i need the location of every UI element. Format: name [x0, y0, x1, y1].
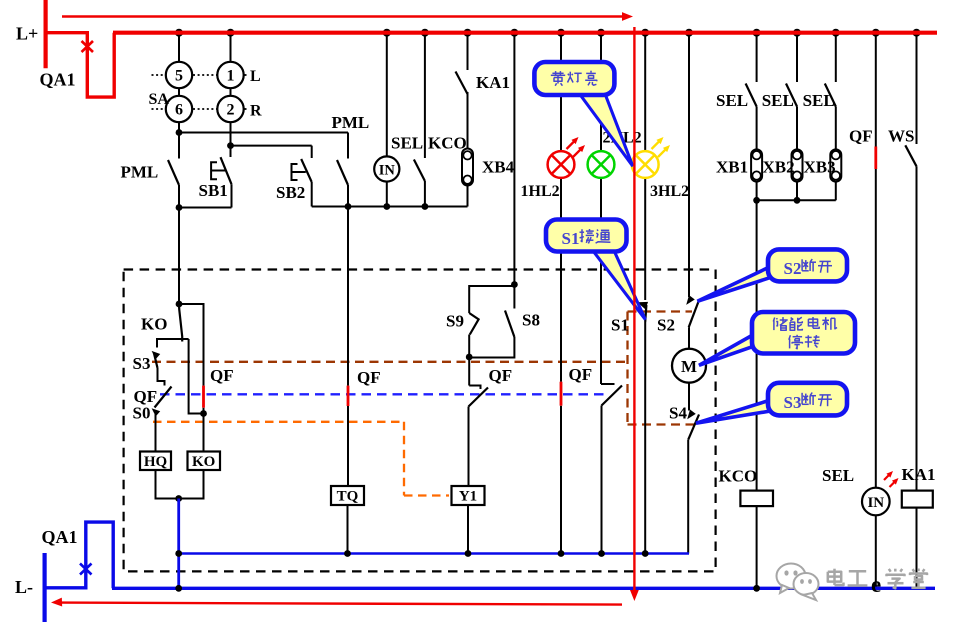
XB3 label — [804, 158, 836, 177]
wire SB2 bottom — [311, 182, 313, 207]
dashed enclosure box (control cabinet boundary) — [124, 270, 716, 572]
wire bus to lamp 2HL2 — [600, 33, 602, 152]
wire PML1 node into box — [178, 208, 180, 305]
wire right branch over to QF — [179, 304, 204, 386]
contact SEL1 blade — [746, 84, 757, 107]
2HL2 label — [603, 130, 642, 147]
wire XB tie to KCO coil — [756, 200, 758, 490]
contact S8 blade — [505, 311, 514, 338]
svg-text:2: 2 — [227, 102, 235, 119]
brown dashed mechanism box bottom edge — [628, 423, 697, 425]
QF closed segment (TQ branch) — [347, 386, 350, 406]
wire node to KO coil — [203, 414, 205, 452]
wire horizontal row2 to SB2 — [231, 145, 312, 147]
svg-text:S0: S0 — [133, 404, 151, 423]
contact SB1 blade — [221, 157, 232, 184]
wire XB3 down — [835, 182, 837, 201]
QA1 breaker cross mark top — [82, 41, 94, 52]
3HL2 label — [650, 183, 689, 200]
svg-text:IN: IN — [867, 495, 884, 511]
wire HQ bottom merge — [156, 470, 179, 499]
svg-text:SEL: SEL — [822, 466, 854, 485]
wire XB4 to tie row — [467, 186, 469, 207]
QF closed segment (right branch) — [874, 147, 877, 170]
svg-text:QF: QF — [569, 365, 593, 384]
KA1 label (contact) — [476, 73, 510, 92]
L- label — [15, 577, 33, 597]
wire KA1 coil to blue bus — [916, 508, 918, 589]
svg-text:XB4: XB4 — [482, 158, 515, 177]
wire SA 1 to 2 — [230, 88, 232, 96]
wire SEL1 to XB1 — [756, 107, 758, 150]
node at 179,207.5 — [176, 204, 183, 211]
node at 347.5,553.5 — [344, 550, 351, 557]
contact QF open blade (2HL2 branch) — [602, 386, 623, 406]
svg-text:HQ: HQ — [144, 454, 168, 470]
node at 756.6,200.3 — [753, 197, 760, 204]
wire IN lower to blue bus — [875, 515, 877, 588]
wire KCO coil to blue bus — [756, 506, 758, 588]
orange dashed S0 linkage line horizontal — [153, 421, 404, 423]
node at 179,304 — [176, 301, 183, 308]
wire 1HL2 below QF — [560, 406, 562, 554]
wire S8 top — [513, 286, 515, 309]
red light-emission arrows 1HL2 — [567, 137, 586, 157]
svg-text:XB2: XB2 — [763, 158, 795, 177]
QA1 label bottom — [42, 527, 78, 547]
svg-text:1HL2: 1HL2 — [521, 183, 560, 200]
SEL label (IN instrument) — [391, 134, 423, 153]
S3 label — [133, 354, 151, 373]
connector XB2 — [792, 149, 803, 181]
SA contact circle 2 — [217, 96, 243, 122]
coil HQ box — [140, 452, 171, 471]
svg-text:XB1: XB1 — [716, 158, 748, 177]
wire row2 to SB2 — [311, 146, 313, 158]
S9 label — [446, 312, 464, 331]
svg-text:L+: L+ — [16, 24, 38, 44]
brown dashed mechanism box left edge — [626, 312, 628, 425]
svg-text:QA1: QA1 — [40, 70, 76, 90]
QF closed segment (KO branch) — [202, 386, 205, 408]
svg-text:KCO: KCO — [719, 467, 758, 486]
wire SEL2 to XB2 — [796, 107, 798, 150]
svg-text:SB1: SB1 — [199, 181, 228, 200]
indicator lamp 2HL2 (green) — [588, 151, 615, 178]
node at 601.5,553.5 — [598, 550, 605, 557]
XB2 label — [763, 158, 795, 177]
wire lamp 2HL2 down — [600, 178, 602, 384]
red arrowhead vertical path — [630, 590, 639, 601]
contact WS blade — [905, 145, 916, 166]
callout balloon: S2 open (S2 duan kai) — [697, 249, 847, 301]
svg-text:S1: S1 — [562, 229, 580, 248]
SEL label 2 — [762, 91, 794, 110]
wire 2HL2 below QF — [601, 406, 603, 554]
node at 468,553.5 — [465, 550, 472, 557]
node at 645.2,553.5 — [642, 550, 649, 557]
R terminal label — [250, 103, 262, 120]
contact KA1 blade — [456, 72, 468, 95]
wire horizontal row1 to PML2 — [179, 132, 348, 134]
wire bus to SEL3 — [835, 33, 837, 82]
wire bus to SA contact 1 — [230, 33, 232, 62]
wire SEL3 to XB3 — [835, 107, 837, 150]
blue dashed QF auxiliary-contact linkage line — [160, 393, 608, 395]
wire row1 corner to PML2 — [347, 133, 349, 159]
wire S2 to motor M — [688, 327, 690, 348]
svg-text:L-: L- — [15, 577, 33, 597]
node at 178.7,498.5 — [175, 495, 182, 502]
wire TQ below QF — [347, 406, 349, 486]
red arrowhead top line — [622, 12, 633, 21]
wire bus to S2 — [688, 33, 690, 297]
wire QF red branch lower — [203, 408, 205, 414]
wire bus to KA1 contact — [467, 33, 469, 70]
wire Y1 to blue tie — [467, 505, 469, 554]
svg-text:3HL2: 3HL2 — [650, 183, 689, 200]
callout balloon: yellow lamp on (huang deng liang) — [534, 62, 632, 166]
svg-text:SEL: SEL — [716, 91, 748, 110]
svg-text:S1: S1 — [611, 316, 629, 335]
instrument IN circle lower — [862, 488, 890, 516]
PML label (left contact) — [121, 163, 159, 182]
node at 178.7,588.3 — [175, 585, 182, 592]
contact QF open blade (Y1 branch) — [469, 388, 489, 407]
wire lamp 1HL2 down — [560, 178, 562, 382]
PML label (second contact) — [332, 113, 370, 132]
SB2 label — [276, 183, 305, 202]
svg-text:S9: S9 — [446, 312, 464, 331]
contact S3 arrow — [152, 351, 161, 359]
SEL label 1 — [716, 91, 748, 110]
QF label (KO branch) — [210, 366, 234, 385]
wire SA6 down to node — [178, 122, 180, 132]
contact S4 opening arrow — [687, 410, 696, 420]
svg-text:S4: S4 — [669, 404, 687, 423]
wire KA1 to XB4 — [467, 92, 469, 149]
contact S0 arrow — [152, 408, 161, 416]
connector XB3 — [830, 149, 841, 181]
wire bus to lamp 1HL2 — [560, 33, 562, 152]
connector XB4 — [462, 149, 473, 186]
node at 424.9,206.5 — [422, 203, 429, 210]
instrument IN circle — [374, 156, 399, 181]
wire SA 5 to 6 — [178, 88, 180, 96]
svg-text:KO: KO — [192, 454, 215, 470]
contact S1 closed arrow — [637, 302, 648, 310]
indicator lamp 3HL2 (yellow) — [632, 151, 659, 178]
contact KCO blade — [414, 160, 425, 182]
QF label (trip chain) — [134, 387, 158, 406]
wire bus to IN circle — [386, 33, 388, 157]
wire lamp 3HL2 down to S1 — [644, 178, 646, 300]
KA1 label (coil) — [902, 465, 936, 484]
orange dashed S0 linkage vertical segment — [403, 422, 405, 496]
svg-text:R: R — [250, 103, 262, 120]
wire S9S8 node down — [468, 358, 470, 386]
svg-text:QF: QF — [849, 127, 873, 146]
svg-text:QA1: QA1 — [42, 527, 78, 547]
S0 label — [133, 404, 151, 423]
node at 797,200.3 — [794, 197, 801, 204]
svg-text:TQ: TQ — [337, 489, 359, 505]
wire S4 down to blue tie end — [687, 440, 689, 554]
wire bus to S9/S8 node — [513, 33, 515, 285]
contact S2 open blade — [689, 302, 699, 328]
indicator lamp 1HL2 (red) — [548, 151, 575, 178]
node at 230.5,145.6 — [227, 142, 234, 149]
wire S3 lower bracket — [158, 368, 165, 386]
wire lower tie row — [312, 206, 468, 208]
wire bus to SA contact 5 — [178, 33, 180, 62]
SA contact circle 5 — [166, 62, 192, 88]
thin red current-path line top — [62, 15, 626, 17]
contact PML2 blade — [337, 160, 348, 185]
1HL2 label — [521, 183, 560, 200]
QA1 breaker jog top — [46, 33, 115, 97]
KO label (contact) — [141, 315, 167, 334]
contact S1 blade — [645, 305, 646, 322]
svg-text:SA: SA — [149, 91, 170, 108]
KCO label (contact) — [428, 134, 467, 153]
wire XB1 down — [756, 182, 758, 201]
svg-text:XB3: XB3 — [804, 158, 836, 177]
node at 561,553.5 — [558, 550, 565, 557]
contact SEL2 blade — [786, 84, 797, 107]
KCO label (coil) — [719, 467, 758, 486]
SA contact circle 6 — [166, 96, 192, 122]
QF label (Y1 branch) — [489, 366, 513, 385]
S1 label — [611, 316, 629, 335]
QA1 breaker cross mark bottom — [80, 564, 92, 575]
svg-text:1: 1 — [227, 68, 235, 85]
svg-text:PML: PML — [121, 163, 159, 182]
contact SEL3 blade — [825, 84, 836, 107]
wire SA2 down to node — [230, 122, 232, 145]
contact S3 blade — [154, 353, 158, 369]
svg-text:PML: PML — [332, 113, 370, 132]
brown dashed mechanical linkage S3 to mechanism — [152, 361, 628, 363]
QF label (1HL2 branch) — [569, 365, 593, 384]
wire bus to SEL2 — [796, 33, 798, 82]
contact S9 limit-switch blade — [469, 313, 478, 335]
wire KO bracket — [157, 339, 189, 348]
svg-text:L: L — [250, 68, 261, 85]
wire WS to KA1 coil — [916, 166, 918, 490]
svg-text:S3: S3 — [784, 393, 802, 412]
bottom red current-path line — [58, 603, 622, 605]
svg-text:S2: S2 — [657, 316, 675, 335]
svg-text:S3: S3 — [133, 354, 151, 373]
svg-text:6: 6 — [175, 102, 183, 119]
yellow light-emission arrows 3HL2 — [652, 137, 671, 157]
node at 386.8,206.5 — [383, 203, 390, 210]
svg-text:SEL: SEL — [762, 91, 794, 110]
callout balloon: S1 closed (S1 jie tong) — [546, 220, 645, 320]
wire QF to Y1 coil — [468, 407, 470, 487]
wire PML2 bottom — [347, 185, 349, 207]
wire S9 bottom — [468, 335, 470, 358]
SA dotted linkage row 2 — [152, 108, 250, 110]
coil KA1 box — [902, 491, 933, 508]
svg-text:KO: KO — [141, 315, 167, 334]
coil KO box — [188, 452, 221, 471]
contact S2 opening arrow — [686, 295, 695, 305]
wire bus to SEL1 — [756, 33, 758, 82]
S8 label — [522, 311, 540, 330]
SA contact circle 1 — [217, 62, 243, 88]
wire S1 down to blue tie — [644, 322, 646, 554]
contact KO blade — [179, 304, 182, 342]
svg-text:IN: IN — [379, 163, 396, 179]
wire bracket down to KO coil node — [189, 339, 204, 414]
red arrows lower IN instrument — [884, 471, 899, 487]
L+ supply terminal vertical — [43, 0, 47, 68]
SB1 pushbutton actuator — [211, 162, 226, 179]
motor M circle — [672, 349, 706, 383]
node at 756.6,588.3 — [753, 585, 760, 592]
wire PML2 node down to TQ — [347, 207, 349, 386]
SA label — [149, 91, 170, 108]
bus junction dots — [175, 29, 921, 37]
QF label (TQ branch) — [357, 368, 381, 387]
XB1 label — [716, 158, 748, 177]
wire SB1 bottom — [179, 184, 232, 207]
wire IN to tie row — [386, 182, 388, 207]
svg-text:QF: QF — [210, 366, 234, 385]
svg-text:SEL: SEL — [391, 134, 423, 153]
brown dashed mechanism box top edge — [628, 310, 693, 312]
wire PML1 to node — [178, 185, 180, 208]
node at 469.2,357 — [466, 354, 473, 361]
wire bus to lamp 3HL2 — [644, 33, 646, 152]
S4 label — [669, 404, 687, 423]
svg-text:SB2: SB2 — [276, 183, 305, 202]
node at 179,132.5 — [176, 129, 183, 136]
contact PML1 blade — [168, 160, 179, 185]
callout balloon: S3 open (S3 duan kai) — [696, 383, 847, 423]
contact QF open blade (trip chain) — [155, 387, 172, 408]
watermark WeChat logo — [777, 564, 819, 601]
SEL label 3 — [803, 91, 835, 110]
svg-text:QF: QF — [357, 368, 381, 387]
wire S0 to HQ coil — [155, 412, 157, 452]
svg-text:WS: WS — [888, 127, 914, 146]
wire node to SB1 — [230, 146, 232, 157]
wire bus to KCO contact — [424, 33, 426, 158]
blue tie line inside box — [179, 552, 689, 554]
wire bus to WS — [916, 33, 918, 144]
node at 178.7,553.5 — [175, 550, 182, 557]
svg-text:Y1: Y1 — [459, 489, 477, 505]
orange dashed S0 linkage to Y1 — [404, 494, 449, 496]
main red bus L+ — [113, 31, 937, 35]
L- supply terminal vertical — [42, 553, 46, 622]
callout balloon: storage motor stopped (chu neng dian ji ting zhuan) — [699, 312, 855, 365]
SB2 pushbutton actuator — [292, 164, 306, 180]
L+ label — [16, 24, 38, 44]
node at 348,206.5 — [345, 203, 352, 210]
blue wire HQ/KO merge down — [177, 499, 180, 589]
long red vertical current path — [633, 27, 635, 593]
svg-text:KA1: KA1 — [476, 73, 510, 92]
node at 203.5,413.5 — [200, 410, 207, 417]
svg-text:KCO: KCO — [428, 134, 467, 153]
SA dotted linkage row 1 — [152, 74, 250, 76]
QA1 label top — [40, 70, 76, 90]
watermark text dianGong-e-xueTang — [828, 569, 927, 598]
svg-text:KA1: KA1 — [902, 465, 936, 484]
QA1 breaker jog bottom — [45, 522, 114, 588]
wire M to S4 — [688, 383, 690, 411]
svg-text:5: 5 — [175, 68, 183, 85]
coil KCO box — [740, 491, 773, 507]
svg-text:QF: QF — [489, 366, 513, 385]
wire XB2 down — [796, 182, 798, 201]
contact QF fixed stub (Y1 branch) — [469, 386, 480, 390]
wire node to PML1 — [178, 133, 180, 159]
coil Y1 box — [452, 486, 485, 505]
wire S8 bottom bar — [469, 337, 514, 358]
L terminal label — [250, 68, 261, 85]
QF label (right) — [849, 127, 873, 146]
XB4 label — [482, 158, 515, 177]
WS label — [888, 127, 914, 146]
wire XB tie bar — [757, 199, 836, 201]
contact SB2 blade — [301, 159, 312, 182]
QF closed segment (1HL2 branch) — [560, 382, 563, 406]
contact S4 open blade — [688, 415, 699, 440]
SEL label (lower IN) — [822, 466, 854, 485]
wire bus to QF right — [875, 33, 877, 147]
wire S9/S8 top bar — [469, 286, 514, 313]
svg-text:S8: S8 — [522, 311, 540, 330]
connector XB1 — [751, 149, 762, 181]
wire QF right to IN — [875, 169, 877, 488]
svg-text:S2: S2 — [784, 259, 802, 278]
wire KO bottom merge — [179, 470, 204, 499]
main blue bus L- — [112, 587, 935, 590]
node at 514.4,284.5 — [511, 281, 518, 288]
SB1 label — [199, 181, 228, 200]
coil TQ box — [331, 486, 364, 505]
S2 label — [657, 316, 675, 335]
contact QF fixed stub (2HL2 branch) — [601, 383, 615, 385]
red arrowhead bottom line — [51, 598, 62, 607]
wire TQ to blue tie — [347, 505, 349, 554]
svg-text:M: M — [681, 357, 697, 376]
svg-text:e: e — [871, 572, 881, 597]
wire KCO to tie row — [424, 181, 426, 207]
